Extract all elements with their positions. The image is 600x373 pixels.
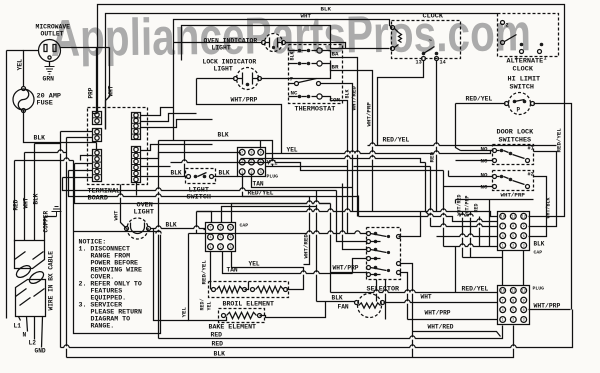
microwave outlet J1 [36,24,71,62]
wire [502,251,504,286]
svg-text:LOCK INDICATOR: LOCK INDICATOR [203,59,257,66]
svg-text:WHT/RED: WHT/RED [351,86,358,111]
connector PLUG 12pin [498,286,545,325]
wire [412,333,414,358]
wire [449,176,493,178]
wire [174,20,393,141]
svg-text:NO: NO [481,146,488,153]
wire [35,317,46,355]
wire RED/YEL [456,96,506,104]
svg-text:RED/YEL: RED/YEL [201,260,208,285]
wire WHT/PRP [197,79,282,154]
wire [66,138,68,358]
wire WHT/PRP [529,303,571,310]
svg-text:13: 13 [416,60,422,66]
svg-text:YEL: YEL [181,307,188,318]
svg-text:YEL: YEL [249,261,260,268]
wire RED/YEL [556,128,563,153]
connector 6pin [132,147,141,183]
wire RED [159,326,503,339]
svg-text:WHT/RED: WHT/RED [428,324,454,331]
wire WHT [384,294,498,303]
svg-text:BLK: BLK [219,170,230,177]
svg-text:THERMOSTAT: THERMOSTAT [295,106,336,114]
wire [343,84,353,188]
svg-text:11: 11 [511,290,515,294]
svg-text:PLUG: PLUG [267,174,279,180]
wire PRP [88,48,97,112]
wire WHT [106,48,115,130]
thermostat contact COM [289,89,351,103]
wire [301,13,312,20]
wire WHT/PRP [343,71,373,212]
wire [463,257,503,259]
svg-text:LIGHT: LIGHT [212,45,231,52]
wire [260,141,262,149]
svg-text:FAN: FAN [338,304,349,311]
wire [241,159,426,163]
wire [347,169,349,234]
wire [489,200,491,247]
svg-text:BA: BA [332,51,339,58]
wire BLK [67,326,514,358]
svg-text:8: 8 [219,227,221,231]
svg-text:2. REFER ONLY TO: 2. REFER ONLY TO [79,281,142,288]
bake element [209,309,265,331]
wire YEL2 [266,160,348,167]
wire WHT/PRP [456,192,534,200]
wire RED [13,161,20,242]
wire [455,247,457,293]
clock box [392,13,461,59]
wire [24,51,39,87]
svg-text:3: 3 [260,171,262,175]
wire [184,141,186,177]
selector box [367,228,401,294]
connector 5pin [93,150,102,182]
wire [75,164,301,204]
svg-text:SWITCH: SWITCH [510,84,534,92]
wire [93,113,98,115]
wire [448,171,450,177]
wire [96,143,98,150]
svg-text:9: 9 [523,299,525,303]
wire TAN [252,174,353,188]
svg-text:EQUIPPED.: EQUIPPED. [91,295,127,302]
svg-text:8: 8 [512,225,514,229]
wire [399,212,421,237]
svg-text:GND: GND [35,348,46,355]
svg-text:10: 10 [501,216,505,220]
svg-text:NO: NO [481,172,488,179]
wire [69,170,93,172]
wire [260,302,326,318]
wire [113,210,120,221]
wire [385,280,387,320]
wire YEL [266,147,494,154]
wire [34,135,46,142]
wire [359,217,498,222]
wire [337,191,341,242]
svg-text:BLK: BLK [332,295,343,302]
wire RED/YEL [243,174,359,197]
svg-text:6: 6 [260,161,262,165]
wire [348,249,367,251]
wire [98,5,565,217]
wire [444,246,498,248]
svg-text:3: 3 [523,245,525,249]
svg-text:1: 1 [209,246,211,250]
svg-text:RED: RED [212,341,224,348]
svg-text:BLK: BLK [34,135,46,142]
wire [343,184,348,250]
svg-text:5: 5 [512,235,514,239]
wire [412,303,414,333]
wire [141,120,213,128]
wire [443,171,445,247]
svg-text:8: 8 [250,152,252,156]
svg-text:FEATURES: FEATURES [91,288,123,295]
svg-text:4: 4 [241,161,243,165]
door lock switches label [497,129,535,145]
svg-text:BLK: BLK [218,132,229,139]
svg-text:WHT: WHT [23,197,30,208]
svg-text:9: 9 [229,227,231,231]
oven light [125,202,154,240]
svg-text:BLK: BLK [321,6,332,13]
wire [197,212,212,223]
svg-text:4: 4 [502,309,504,313]
wire [121,185,127,229]
wire WHT/RED [413,324,501,337]
wire [426,163,431,217]
svg-text:LIGHT: LIGHT [134,209,154,217]
svg-text:HI LIMIT: HI LIMIT [508,76,541,84]
svg-text:RED: RED [13,199,20,210]
wire [61,47,110,49]
wire BLK [171,170,238,177]
wire TAN [223,252,353,274]
ground GRN [43,62,55,83]
svg-text:6: 6 [229,236,231,240]
svg-text:RED/YEL: RED/YEL [462,286,489,293]
svg-text:L2: L2 [29,340,37,347]
wire [141,108,174,116]
wire RED [61,310,573,348]
wire [67,137,93,139]
wire [204,229,206,231]
svg-text:CAP: CAP [534,250,543,256]
svg-text:RED/YEL: RED/YEL [466,96,493,103]
svg-text:4: 4 [502,235,504,239]
wire [378,61,424,146]
svg-text:WHT: WHT [421,294,432,301]
connector 2pin [93,112,102,125]
thermostat contact BR [289,61,343,71]
wire [63,177,93,179]
svg-text:RED: RED [474,203,480,212]
broil element [209,282,289,308]
wire RED/YEL [368,137,557,146]
svg-text:4: 4 [209,236,211,240]
wire [431,226,498,228]
wire [456,104,461,151]
connector 5pin [132,113,141,140]
svg-text:CLOCK: CLOCK [513,66,534,74]
svg-text:COVER.: COVER. [91,274,115,281]
svg-text:P: P [517,107,521,114]
svg-text:9: 9 [523,225,525,229]
wire [301,206,317,208]
svg-text:BLK: BLK [290,51,296,60]
wire [141,153,241,159]
wire [401,264,413,303]
wire [24,111,97,143]
svg-text:RED: RED [211,332,223,339]
wire COPPER [43,210,50,240]
wire [7,50,24,52]
svg-text:BAKE ELEMENT: BAKE ELEMENT [209,324,257,331]
svg-text:~: ~ [429,38,433,45]
svg-text:5: 5 [512,309,514,313]
connector CAP 12pin [498,212,545,256]
wire RED/YEL vert labels [200,298,213,310]
wire [171,163,444,171]
wire [261,61,331,79]
svg-text:NOTICE:: NOTICE: [79,239,107,246]
svg-text:2: 2 [512,245,514,249]
wire [352,188,354,212]
svg-text:GRN: GRN [43,76,55,83]
svg-text:BLK: BLK [534,241,545,248]
svg-text:COPPER: COPPER [43,210,50,232]
wire BLK [159,132,273,167]
wire [197,211,353,213]
wire [81,156,93,161]
svg-text:2: 2 [219,246,221,250]
svg-text:7: 7 [241,152,243,156]
wire BLK [33,144,40,241]
svg-text:TAN: TAN [253,181,264,188]
svg-text:BOARD: BOARD [88,195,108,203]
wire [136,183,138,196]
wire [17,59,24,71]
svg-text:ALTERNATE: ALTERNATE [507,58,544,66]
svg-text:WHT/RED: WHT/RED [303,234,310,259]
svg-text:BLK: BLK [166,222,177,229]
svg-text:WHT/BLK: WHT/BLK [546,197,552,218]
wire WHT/PRP [408,310,498,320]
svg-text:7: 7 [502,225,504,229]
wire [331,233,367,235]
svg-text:WHT/PRP: WHT/PRP [534,303,561,310]
svg-text:6: 6 [523,309,525,313]
wire [341,241,367,243]
svg-text:WHT/PRP: WHT/PRP [465,195,471,216]
wire [6,51,8,319]
lock indicator light [203,59,262,90]
svg-text:1. DISCONNECT: 1. DISCONNECT [79,246,130,253]
svg-text:5: 5 [219,236,221,240]
connector 2pin [93,129,102,142]
wire WHT/PRP [331,265,367,273]
wire [529,152,557,227]
alternate clock box [498,14,559,74]
BX cable [14,241,54,317]
wire [330,204,332,293]
wire [456,160,493,162]
svg-text:11: 11 [511,216,515,220]
svg-text:2: 2 [512,319,514,323]
svg-text:3. SERVICER: 3. SERVICER [79,302,123,309]
svg-text:3: 3 [523,319,525,323]
wire [141,176,187,178]
svg-text:WHT/PRP: WHT/PRP [366,102,373,127]
fan [332,294,385,318]
svg-text:14: 14 [440,60,446,66]
svg-text:2: 2 [506,23,509,29]
wire WHT/RED [343,58,358,217]
wire [141,145,213,151]
wire YEL [181,234,227,321]
wire [353,212,498,217]
svg-text:RANGE FROM: RANGE FROM [91,253,131,260]
svg-text:CLOCK: CLOCK [423,13,444,21]
wire YEL [232,252,304,290]
svg-text:5: 5 [250,161,252,165]
wire [196,212,198,234]
svg-text:SWITCH: SWITCH [187,194,211,202]
svg-text:PRP: PRP [88,87,95,98]
wire WHT/RED [457,194,463,257]
wire RED [474,203,480,246]
door lock switch 2 [481,171,534,191]
wire WHT [23,153,30,241]
svg-text:YEL: YEL [287,147,298,154]
svg-text:9: 9 [260,152,262,156]
wire [25,152,67,154]
svg-text:WHT/PRP: WHT/PRP [501,192,526,199]
svg-text:SWITCHES: SWITCHES [499,137,532,145]
svg-text:#2: #2 [528,172,534,178]
svg-text:BLK: BLK [33,193,40,204]
alternate clock contacts [501,21,547,62]
wire [158,141,160,339]
wire [14,317,22,330]
svg-text:DOOR LOCK: DOOR LOCK [497,129,535,137]
svg-text:WHT/PRP: WHT/PRP [231,97,258,104]
svg-text:1: 1 [502,319,504,323]
svg-text:BLK: BLK [214,351,226,358]
wire [154,229,189,321]
svg-text:PLUG: PLUG [533,286,545,292]
svg-text:12: 12 [522,290,526,294]
wire [141,166,171,168]
wire [343,101,348,153]
svg-text:OUTLET: OUTLET [41,31,64,38]
wire [61,131,93,133]
svg-text:3: 3 [229,246,231,250]
svg-text:7: 7 [209,227,211,231]
light switch [186,169,216,202]
thermostat contact 7 [289,76,343,86]
svg-text:WHT/PRP: WHT/PRP [333,265,359,272]
wire [354,166,431,168]
wire WHT/BLK [529,177,552,237]
wire [523,251,525,286]
svg-text:CAP: CAP [240,223,249,229]
svg-text:2: 2 [515,56,518,62]
svg-text:PLEASE RETURN: PLEASE RETURN [91,309,142,316]
wire [60,132,62,348]
terminal board box [88,108,148,203]
wire [23,317,28,339]
svg-text:RANGE.: RANGE. [91,323,115,330]
svg-text:RED/YEL: RED/YEL [383,137,410,144]
wire RED/YEL [201,252,211,290]
wire WHT/RED [303,197,310,265]
svg-text:WHT: WHT [113,210,120,221]
svg-text:12: 12 [522,216,526,220]
wire [106,14,498,130]
svg-text:DIAGRAM TO: DIAGRAM TO [91,316,131,323]
wire [73,161,75,232]
clock contacts [391,26,446,66]
wire [197,78,235,80]
svg-text:COM: COM [330,97,341,104]
wire [430,167,432,227]
wire [461,150,493,152]
svg-text:OVEN INDICATOR: OVEN INDICATOR [204,38,258,45]
svg-text:6: 6 [523,235,525,239]
svg-text:1: 1 [502,245,504,249]
svg-text:MICROWAVE: MICROWAVE [36,24,71,31]
wire [69,171,310,197]
svg-text:WHT/PRP: WHT/PRP [425,310,451,317]
wire [321,6,332,13]
svg-text:LIGHT: LIGHT [214,66,233,73]
wire [534,104,572,310]
svg-text:REMOVING WIRE: REMOVING WIRE [91,267,142,274]
wire [75,163,93,165]
wire [35,143,61,145]
connector PLUG 9pin [238,148,279,180]
wire [353,259,367,274]
svg-text:WHT/RED: WHT/RED [457,194,463,215]
svg-text:N: N [23,332,27,339]
wire [401,273,408,320]
wire [316,191,318,302]
svg-text:RED/YEL: RED/YEL [556,128,563,153]
oven indicator light [204,34,286,52]
thermostat box [289,45,343,114]
door lock switch 1 [481,145,534,165]
svg-text:7: 7 [290,76,294,83]
wire [15,160,74,162]
svg-text:BR: BR [332,64,339,71]
wire [455,200,457,204]
wire [174,42,263,44]
connector CAP 9pin [206,223,249,252]
wire [347,153,349,169]
wire [245,282,249,290]
wire [63,178,337,191]
notice box [74,232,161,334]
svg-text:RED/: RED/ [200,298,206,310]
svg-text:L1: L1 [14,323,22,330]
wire [317,301,356,303]
svg-text:YEL: YEL [207,301,213,310]
